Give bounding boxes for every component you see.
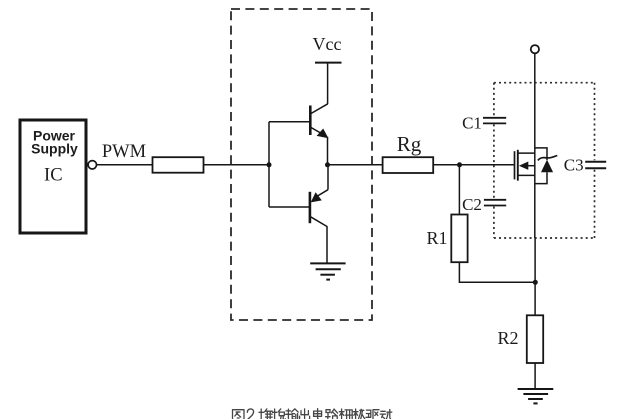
caption glyph 2 xyxy=(247,409,254,419)
transistor Q2 (PNP, lower) xyxy=(310,165,328,263)
svg-text:C2: C2 xyxy=(462,195,482,214)
caption glyph 挽 xyxy=(272,409,285,419)
capacitor C1 plates xyxy=(483,118,506,124)
svg-text:Vcc: Vcc xyxy=(313,34,342,54)
gate bar xyxy=(514,151,516,179)
svg-text:R2: R2 xyxy=(497,328,518,348)
capacitor C2 plates xyxy=(484,200,506,206)
resistor R1 xyxy=(451,215,467,263)
vertical channel rail xyxy=(534,148,536,238)
svg-text:Supply: Supply xyxy=(31,141,78,157)
node: R1/R2/source junction xyxy=(533,280,538,285)
svg-text:C1: C1 xyxy=(462,114,482,133)
resistor: PWM series resistor xyxy=(153,157,204,173)
caption glyph 路 xyxy=(326,409,338,419)
wire: junction down to R1 xyxy=(458,165,460,215)
caption glyph 图 xyxy=(233,410,245,419)
resistor Rg xyxy=(383,157,434,173)
body diode triangle xyxy=(541,160,553,173)
node: driver output junction xyxy=(325,162,330,167)
capacitor C3 plates xyxy=(585,162,606,169)
ground: driver stage ground xyxy=(310,263,345,279)
body diode branch bottom xyxy=(535,172,547,183)
body stub with arrow xyxy=(519,162,528,170)
transistor Q1 (NPN, upper) xyxy=(310,104,328,165)
wire: common base vertical xyxy=(268,122,270,207)
svg-text:IC: IC xyxy=(44,165,63,185)
body diode cathode swoosh xyxy=(538,156,558,161)
caption glyph 动 xyxy=(380,410,392,419)
caption glyph 栅 xyxy=(339,409,352,419)
terminal: PWM output pin circle xyxy=(88,161,96,169)
resistor R2 xyxy=(527,315,543,363)
power rail Vcc symbol xyxy=(315,63,342,104)
caption: 图2 推挽输出电路栅极驱动 (cut off at bottom edge) xyxy=(233,409,393,419)
wire: Q2 base rail xyxy=(269,206,310,208)
caption glyph 极 xyxy=(353,409,365,419)
svg-text:Rg: Rg xyxy=(397,132,422,156)
IC U1: Power Supply IC box xyxy=(20,120,86,233)
caption glyph 推 xyxy=(259,409,272,419)
MOSFET Q3 (N-channel with body diode) xyxy=(515,148,558,238)
wire: PWM pin to series resistor xyxy=(97,164,153,166)
caption glyph 电 xyxy=(314,409,322,419)
node: driver input junction xyxy=(267,162,272,167)
node: gate/R1 junction xyxy=(457,162,462,167)
wire: driver output to Rg xyxy=(328,164,383,166)
wire: R2 to ground xyxy=(534,363,536,389)
source stub xyxy=(519,174,535,176)
terminal: drain supply pin circle xyxy=(531,45,539,53)
dotted box: MOSFET parasitic model xyxy=(494,83,595,238)
wire: resistor to driver input node xyxy=(204,164,270,166)
caption glyph 出 xyxy=(300,409,310,419)
ground: source network ground xyxy=(518,389,554,403)
body diode branch top xyxy=(535,148,547,160)
svg-text:R1: R1 xyxy=(426,228,447,248)
wire: Rg to MOSFET gate xyxy=(433,164,514,166)
wire: Q1 base rail xyxy=(269,121,310,123)
wire: source rail down to junction xyxy=(534,238,536,315)
caption glyph 驱 xyxy=(366,410,379,419)
drain stub xyxy=(519,152,535,154)
svg-text:C3: C3 xyxy=(564,156,584,175)
dashed box: push-pull driver stage xyxy=(231,9,372,320)
wire: R1 bottom to source rail xyxy=(459,262,535,282)
svg-text:PWM: PWM xyxy=(102,142,146,162)
caption glyph 输 xyxy=(286,409,299,419)
channel bar xyxy=(517,150,519,181)
wire: drain rail from terminal down xyxy=(534,54,536,149)
